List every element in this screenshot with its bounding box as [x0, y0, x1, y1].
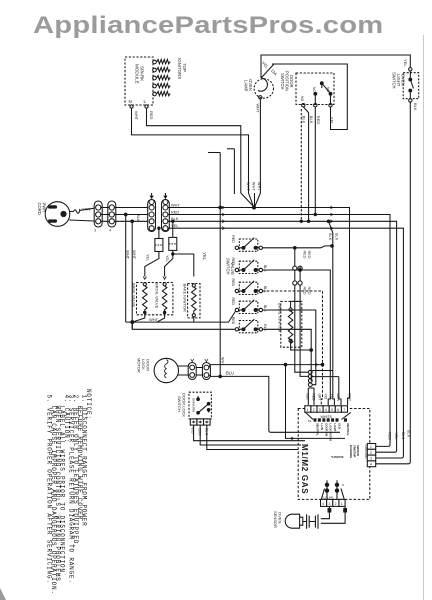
bake ignitor element [192, 284, 195, 287]
svg-text:YEL: YEL [202, 252, 207, 261]
svg-text:VIO: VIO [324, 394, 328, 400]
oven lamp B1 [254, 79, 273, 98]
svg-text:RED: RED [231, 258, 235, 266]
svg-text:WHT: WHT [252, 182, 256, 191]
svg-text:WHT: WHT [126, 250, 131, 260]
wire RED from L [147, 108, 241, 193]
svg-text:RED: RED [307, 251, 311, 259]
svg-text:1: 1 [307, 408, 309, 412]
svg-text:WHT: WHT [246, 182, 250, 191]
svg-text:SENSOR: SENSOR [356, 445, 360, 456]
svg-text:IGNITORS: IGNITORS [177, 58, 182, 79]
door lock motor M1 [154, 358, 178, 382]
svg-text:BLK: BLK [263, 286, 267, 293]
svg-text:RED: RED [231, 298, 235, 306]
svg-text:3: 3 [94, 229, 96, 233]
wht funnel junction [241, 193, 254, 207]
svg-text:4: 4 [370, 462, 372, 466]
svg-text:RED: RED [302, 287, 306, 295]
red bullet connectors [293, 266, 297, 270]
svg-text:NC: NC [326, 87, 330, 92]
broil valve coil [163, 277, 166, 280]
svg-text:DOOR SW: DOOR SW [324, 424, 328, 437]
svg-text:BAKE IGNITOR: BAKE IGNITOR [183, 284, 188, 312]
svg-text:LAMP: LAMP [244, 80, 249, 92]
svg-text:RED: RED [231, 279, 235, 287]
connector strip D [162, 200, 170, 232]
svg-text:SWITCH: SWITCH [392, 72, 397, 89]
splice arrows on rails [222, 206, 225, 230]
svg-text:RED: RED [171, 209, 179, 214]
svg-text:BLK: BLK [302, 116, 307, 124]
svg-text:YEL: YEL [403, 59, 408, 67]
svg-text:6: 6 [337, 408, 339, 412]
svg-text:13A: 13A [270, 68, 279, 77]
svg-text:RED: RED [311, 394, 315, 402]
motor wht wire [209, 365, 345, 439]
svg-text:WHT: WHT [132, 250, 137, 260]
svg-text:WHT: WHT [171, 202, 180, 207]
BLK branch to board cell5 [312, 221, 339, 405]
svg-text:BROIL VALVE: BROIL VALVE [154, 283, 159, 309]
wire F2 to broil valve and bake ignitor [165, 250, 173, 276]
svg-text:RED: RED [302, 251, 306, 259]
svg-text:GRN/ORN: GRN/ORN [191, 398, 195, 412]
svg-text:YEL: YEL [261, 60, 270, 70]
svg-text:CORD: CORD [37, 203, 42, 215]
BLK branch to board cell6 [339, 377, 341, 405]
svg-text:NEUTRAL: NEUTRAL [346, 424, 350, 437]
svg-text:TIME/TMP: TIME/TMP [353, 445, 357, 458]
svg-text:WHITE: WHITE [321, 415, 333, 419]
svg-text:WHT: WHT [134, 111, 139, 121]
board bottom block P2 [321, 499, 346, 506]
svg-text:5: 5 [331, 408, 333, 412]
svg-text:DLB: DLB [338, 424, 342, 429]
broil ignitor bottom wire [291, 342, 312, 350]
svg-text:WHT: WHT [348, 394, 352, 402]
connector strip A [94, 201, 102, 227]
svg-text:ORN: ORN [336, 394, 340, 402]
svg-text:RED: RED [316, 116, 321, 125]
svg-text:YEL: YEL [330, 117, 335, 125]
header logo text [33, 14, 383, 38]
broil ignitor box [281, 301, 302, 347]
svg-text:NO: NO [300, 96, 304, 101]
svg-text:BLK: BLK [263, 324, 267, 331]
svg-text:BLK: BLK [136, 214, 141, 222]
spark module U1 box [125, 57, 153, 105]
wire YEL rail to F1 [158, 228, 160, 238]
svg-text:1: 1 [370, 445, 372, 449]
valve switch output wires [263, 246, 333, 248]
svg-text:RED: RED [149, 111, 154, 120]
board connector P3 cells [367, 444, 375, 467]
svg-text:BLK: BLK [413, 103, 418, 111]
p1 wire labels [305, 394, 351, 402]
page corner blob bottom left [0, 588, 6, 600]
svg-text:GRY: GRY [198, 428, 202, 437]
board tiny legend [316, 424, 351, 442]
bake ignitor box [188, 284, 200, 318]
control board M1/M2 GAS box [298, 409, 370, 500]
wires between strips [101, 208, 109, 222]
svg-text:BROIL IGNITOR: BROIL IGNITOR [278, 303, 283, 333]
power neutral wire [69, 220, 94, 221]
board connector P1 cells [305, 406, 348, 412]
wire WHT from N [132, 108, 249, 193]
door switch contacts [302, 104, 305, 107]
svg-text:3: 3 [329, 502, 331, 506]
svg-text:SWITCH: SWITCH [177, 396, 182, 412]
svg-text:Y/G: Y/G [330, 394, 334, 400]
svg-text:YEL: YEL [394, 432, 398, 439]
main rail BLK [168, 221, 397, 452]
motor connector pair 2 [196, 368, 203, 376]
wht drop to motor line [219, 208, 221, 377]
p1 entry circles column [308, 370, 312, 374]
svg-text:N: N [129, 99, 132, 104]
lamp yel diagonal [261, 64, 274, 78]
svg-text:RED: RED [387, 432, 391, 440]
valve neutral returns [126, 312, 236, 323]
svg-text:GRN/ORN: GRN/ORN [364, 445, 368, 459]
svg-text:M1/M2 GAS: M1/M2 GAS [300, 444, 309, 494]
lamp WHT wire down [255, 99, 261, 207]
svg-text:BLK: BLK [407, 430, 411, 438]
middle bus verticals [295, 248, 309, 372]
connector strip C [148, 200, 156, 232]
door position switch S2 box [296, 73, 334, 105]
fuse block F1 [155, 239, 163, 252]
svg-text:RED: RED [231, 317, 235, 325]
svg-text:P1: P1 [308, 419, 312, 423]
svg-text:WHT: WHT [149, 317, 159, 322]
wire F1 to bake valve [145, 252, 159, 277]
svg-text:1: 1 [341, 502, 343, 506]
svg-text:WHT: WHT [257, 182, 261, 191]
svg-text:LOCK MOTOR: LOCK MOTOR [329, 424, 333, 442]
svg-text:BLK: BLK [263, 265, 267, 272]
main rail RED [168, 215, 390, 447]
svg-text:5. VERIFY PROPER OPERATION AFT: 5. VERIFY PROPER OPERATION AFTER SERVICI… [45, 395, 52, 584]
svg-text:YEL: YEL [165, 255, 169, 262]
svg-text:RED: RED [307, 287, 311, 295]
svg-text:YEL: YEL [146, 254, 150, 261]
svg-text:BAKE/BRL: BAKE/BRL [349, 445, 353, 459]
svg-text:7: 7 [343, 408, 345, 412]
top rail to oven light switch [261, 55, 410, 78]
svg-text:SWITCH: SWITCH [226, 258, 231, 275]
svg-text:NC: NC [312, 87, 316, 92]
blu wire [209, 375, 340, 432]
svg-text:2: 2 [335, 502, 337, 506]
page edge artifact right [423, 35, 425, 600]
svg-text:MOTOR: MOTOR [137, 358, 142, 373]
svg-text:3: 3 [319, 408, 321, 412]
svg-text:BLK: BLK [401, 432, 405, 440]
oven sensor RT1 [285, 514, 299, 528]
oven light switch S3 [403, 73, 419, 99]
svg-text:N: N [342, 483, 344, 487]
svg-text:YEL: YEL [171, 223, 179, 228]
svg-text:SENSOR: SENSOR [273, 511, 278, 528]
power cord P1 [45, 202, 70, 227]
bake valve coil [143, 277, 146, 280]
bake/broil valve box [137, 283, 173, 315]
svg-text:2: 2 [370, 451, 372, 455]
svg-text:L1 IN: L1 IN [320, 424, 324, 430]
svg-text:BLK: BLK [335, 233, 339, 241]
notice text block [45, 389, 92, 595]
sensor wires [328, 508, 332, 513]
door lock switch terminal cells [190, 419, 197, 425]
p2 relay contacts [325, 483, 328, 486]
broil ignitor top wire [291, 301, 301, 308]
grn wire with strain relief [70, 208, 94, 211]
svg-text:LIGHT: LIGHT [333, 424, 337, 432]
main rail WHT [168, 208, 350, 406]
svg-text:MODULE: MODULE [135, 64, 140, 84]
svg-text:4: 4 [325, 408, 327, 412]
board fanout [306, 412, 351, 419]
svg-text:BLK: BLK [263, 305, 267, 312]
oven light switch BLK wire down right side [376, 102, 410, 464]
svg-text:3: 3 [370, 457, 372, 461]
svg-text:GRN: GRN [82, 207, 91, 212]
spark module output terminals and spark gaps [153, 59, 171, 95]
svg-text:BAKE VALVE: BAKE VALVE [131, 283, 136, 307]
misc jog verticals upper middle [219, 153, 221, 208]
connector strip B [108, 201, 116, 227]
wire BLK rail to F2 [172, 221, 174, 237]
svg-text:2: 2 [313, 408, 315, 412]
svg-text:BLK: BLK [328, 233, 332, 241]
door switch wires down [300, 109, 302, 221]
motor connector pair 1 [178, 366, 189, 375]
svg-text:GRY: GRY [318, 394, 322, 402]
svg-text:4: 4 [322, 502, 324, 506]
strip entry arrows [150, 193, 167, 198]
main rail YEL [168, 228, 403, 458]
svg-text:4: 4 [109, 229, 111, 233]
door lock switch wires to board [194, 425, 305, 441]
board pin squares [314, 418, 348, 421]
door lock switch box [189, 392, 211, 419]
svg-text:RED: RED [231, 235, 235, 243]
svg-text:L: L [144, 99, 147, 104]
svg-text:NEUTRAL: NEUTRAL [316, 424, 320, 437]
fuse block F2 [169, 237, 177, 250]
left WHT return verticals [125, 215, 127, 323]
inner yel rail loop [272, 64, 347, 130]
svg-text:BLK: BLK [309, 116, 314, 124]
svg-text:BLU: BLU [226, 371, 234, 376]
svg-text:*1348/3YB: *1348/3YB [331, 455, 344, 459]
svg-text:SWITCH: SWITCH [280, 73, 285, 90]
